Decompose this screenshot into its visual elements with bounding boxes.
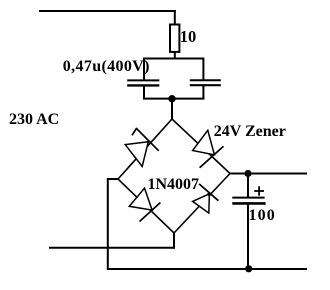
svg-text:100: 100 (249, 207, 276, 224)
svg-text:10: 10 (180, 27, 197, 46)
svg-text:230 AC: 230 AC (9, 111, 59, 128)
svg-text:1N4007: 1N4007 (148, 176, 200, 193)
svg-text:24V Zener: 24V Zener (214, 123, 286, 140)
svg-text:0,47u(400V): 0,47u(400V) (63, 58, 150, 75)
